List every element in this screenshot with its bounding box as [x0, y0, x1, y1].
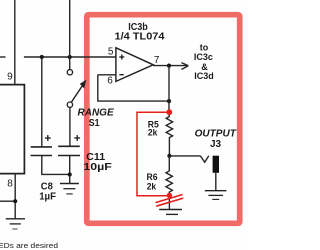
switch S1 contact (upper): [67, 70, 72, 75]
node (red) at R6 bottom: [167, 193, 172, 198]
C11 polarity +: [74, 135, 80, 141]
jack J3 body: [213, 156, 219, 173]
resistor R5: [166, 112, 172, 156]
connector tip symbol: [200, 156, 208, 163]
wire C11 bottom lead: [69, 156, 71, 184]
switch S1 arm: [71, 85, 83, 102]
wire R6 to ground: [168, 195, 170, 209]
svg-text:1/4 TL074: 1/4 TL074: [115, 32, 165, 43]
wire pin-8 branch left: [0, 200, 15, 202]
wire feedback loop: [98, 75, 169, 101]
svg-text:J3: J3: [210, 139, 222, 150]
wire J3 to ground: [215, 173, 217, 191]
wire output pin 7: [153, 65, 187, 67]
arrow to IC3c/IC3d: [181, 63, 188, 70]
highlight box (red callout rectangle): [87, 15, 240, 224]
wire output to J3: [169, 155, 200, 157]
junction output node: [167, 64, 171, 68]
svg-text:9: 9: [7, 72, 13, 83]
svg-text:1µF: 1µF: [39, 192, 56, 203]
cut marks (red slashes): [156, 195, 184, 207]
wire pin 8: [14, 174, 16, 219]
wire bus stub left: [0, 56, 6, 58]
wire C8 top lead: [41, 57, 43, 147]
svg-text:EDs are desired: EDs are desired: [0, 241, 58, 250]
ground (below C11): [60, 184, 79, 194]
svg-text:10µF: 10µF: [83, 161, 112, 173]
capacitor C11: [58, 146, 80, 155]
resistor R6: [166, 156, 172, 196]
switch S1 contact (lower): [67, 102, 72, 107]
wire bus to op-amp +in: [24, 56, 116, 58]
svg-text:7: 7: [154, 55, 160, 66]
wire S1 feed from top: [69, 0, 71, 57]
svg-text:S1: S1: [89, 118, 100, 129]
svg-text:IC3d: IC3d: [194, 71, 214, 81]
junction C8/C11: [68, 172, 72, 176]
wire S1 to C11: [69, 108, 71, 147]
junction pin-8 branch: [13, 199, 17, 203]
wire pin 6 input: [98, 74, 116, 76]
junction feedback/divider: [167, 99, 171, 103]
node (red) at R5 top: [166, 109, 172, 115]
junction node C8 tap: [40, 55, 44, 59]
junction output divider tap: [167, 154, 171, 158]
wire pin 9: [14, 0, 16, 84]
C8 polarity +: [45, 135, 51, 141]
IC U (left, partial body): [0, 85, 24, 174]
junction node S1 tap: [68, 55, 72, 59]
svg-text:6: 6: [107, 76, 113, 87]
op-amp IC3b: [116, 48, 153, 82]
svg-text:IC3c: IC3c: [194, 52, 213, 62]
svg-text:RANGE: RANGE: [78, 107, 114, 118]
svg-text:2k: 2k: [147, 181, 157, 192]
wire (red correction) around divider: [137, 112, 169, 196]
op-amp + input mark: [119, 55, 124, 60]
wire C8 bottom lead: [42, 156, 70, 175]
svg-text:2k: 2k: [148, 128, 158, 139]
svg-text:to: to: [200, 42, 209, 52]
op-amp - input mark: [119, 74, 124, 76]
svg-text:5: 5: [108, 47, 114, 58]
wire S1 upper stub: [69, 57, 71, 70]
svg-text:8: 8: [7, 178, 13, 189]
ground (below pin 8): [6, 219, 25, 229]
wire output node down: [168, 66, 170, 112]
ground (below R6): [159, 210, 182, 215]
capacitor C8: [31, 147, 53, 156]
ground (below J3): [205, 191, 227, 200]
